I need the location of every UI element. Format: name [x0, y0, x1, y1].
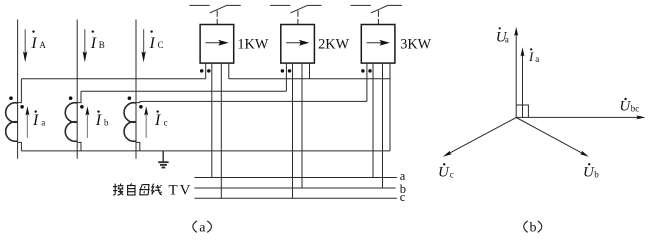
- label Ub: [583, 163, 599, 181]
- wattmeter W1 (1KW): [200, 25, 234, 73]
- 母: [139, 184, 149, 194]
- arrow Ic (secondary current arrow up): [144, 106, 148, 138]
- wire W3 pin3 (to bus b): [382, 63, 384, 188]
- wire C (CT c secondary to W3 pin1): [140, 100, 367, 102]
- wire W1 pin1: [205, 63, 207, 79]
- phase line A: [17, 20, 19, 159]
- svg-text:a: a: [505, 34, 509, 44]
- wire W1 pin2 (to bus a): [211, 63, 213, 177]
- svg-text:I: I: [154, 112, 161, 129]
- wire B (CT b secondary to W2 pin1): [81, 90, 286, 92]
- switch S1: [189, 5, 240, 24]
- label Ubc: [619, 98, 639, 115]
- svg-text:B: B: [99, 40, 105, 50]
- phase line B: [76, 20, 78, 159]
- svg-text:c: c: [164, 117, 168, 127]
- label IB: [90, 30, 105, 52]
- wire W3 pin2 (to bus a): [372, 63, 374, 177]
- svg-text:U: U: [583, 165, 595, 181]
- wire A-left (CT a secondary to W1 pin1): [21, 78, 205, 80]
- svg-text:c: c: [400, 190, 406, 204]
- svg-text:I: I: [30, 35, 37, 52]
- svg-text:3KW: 3KW: [400, 37, 431, 53]
- svg-text:I: I: [32, 112, 39, 129]
- svg-text:I: I: [95, 112, 102, 129]
- svg-text:a: a: [199, 220, 206, 235]
- svg-text:U: U: [438, 165, 450, 181]
- svg-text:C: C: [158, 40, 164, 50]
- svg-text:A: A: [39, 40, 46, 50]
- arrow IC (current arrow down, phase C): [141, 29, 145, 62]
- current transformer TAc (CT on phase C): [124, 96, 143, 151]
- current transformer TAa (CT on phase A): [6, 79, 24, 151]
- phasor Ia (vector up, shorter): [521, 47, 525, 117]
- svg-text:I: I: [149, 35, 156, 52]
- svg-text:b: b: [530, 220, 537, 235]
- svg-text:1KW: 1KW: [237, 37, 268, 53]
- wire W2 pin2 (to bus c): [292, 63, 294, 198]
- svg-text:U: U: [619, 98, 631, 114]
- arrow IB (current arrow down, phase B): [83, 29, 87, 62]
- switch S2: [270, 5, 321, 24]
- label 接自母线 TV (hand-drawn hanzi strokes): [113, 183, 162, 195]
- phasor Uc (vector down-left): [443, 118, 516, 157]
- 自: [128, 183, 135, 195]
- svg-text:a: a: [535, 54, 539, 64]
- arrow IA (current arrow down, phase A): [23, 29, 27, 62]
- wire W2 pin4 (to return bus): [309, 63, 311, 79]
- wire W2 pin3 (to bus b): [301, 63, 303, 188]
- wire secondary return (common return, grounded): [21, 150, 390, 152]
- wire A-right (current return bus W1 pin4 to W3 pin4): [229, 78, 390, 80]
- bus a: [194, 177, 396, 179]
- label IA: [30, 30, 46, 52]
- svg-text:I: I: [90, 35, 97, 52]
- svg-text:2KW: 2KW: [318, 37, 349, 53]
- wire W3 pin1 (to wire C): [366, 63, 368, 101]
- wire W3 pin4 (to secondary return): [389, 63, 391, 151]
- phase line C: [135, 20, 137, 159]
- label (a): [193, 220, 212, 235]
- bus b: [194, 187, 395, 189]
- 线: [152, 184, 162, 195]
- wire W1 pin3 (to bus c): [220, 63, 222, 198]
- wattmeter W3 (3KW): [361, 25, 395, 73]
- label Ic: [154, 110, 168, 128]
- svg-text:TV: TV: [169, 183, 193, 199]
- svg-text:b: b: [594, 169, 599, 179]
- switch S3: [351, 5, 402, 24]
- wire W1 pin4: [228, 63, 230, 79]
- bus c: [194, 197, 397, 199]
- label Ua: [496, 27, 509, 45]
- wattmeter W2 (2KW): [281, 25, 315, 73]
- 接: [113, 184, 123, 196]
- arrow Ia (secondary current arrow up): [25, 106, 29, 138]
- current transformer TAb (CT on phase B): [65, 91, 83, 151]
- label Ia (phasor): [528, 48, 539, 64]
- svg-text:a: a: [41, 117, 45, 127]
- right angle mark: [516, 105, 528, 117]
- label Uc: [438, 163, 454, 181]
- wire W2 pin1 (to wire B): [285, 63, 287, 91]
- phasor Ub (vector down-right): [516, 118, 589, 157]
- label Ia: [32, 110, 45, 128]
- label Ib: [95, 110, 109, 128]
- ground: [158, 151, 168, 168]
- phasor Ubc (vector right): [516, 115, 645, 119]
- svg-text:bc: bc: [631, 103, 640, 113]
- svg-text:I: I: [528, 49, 534, 64]
- phasor Ua (vector up): [514, 27, 518, 118]
- arrow Ib (secondary current arrow up): [85, 106, 89, 138]
- svg-text:c: c: [450, 169, 454, 179]
- label (b): [524, 220, 542, 235]
- svg-text:b: b: [104, 117, 109, 127]
- label IC: [149, 30, 164, 52]
